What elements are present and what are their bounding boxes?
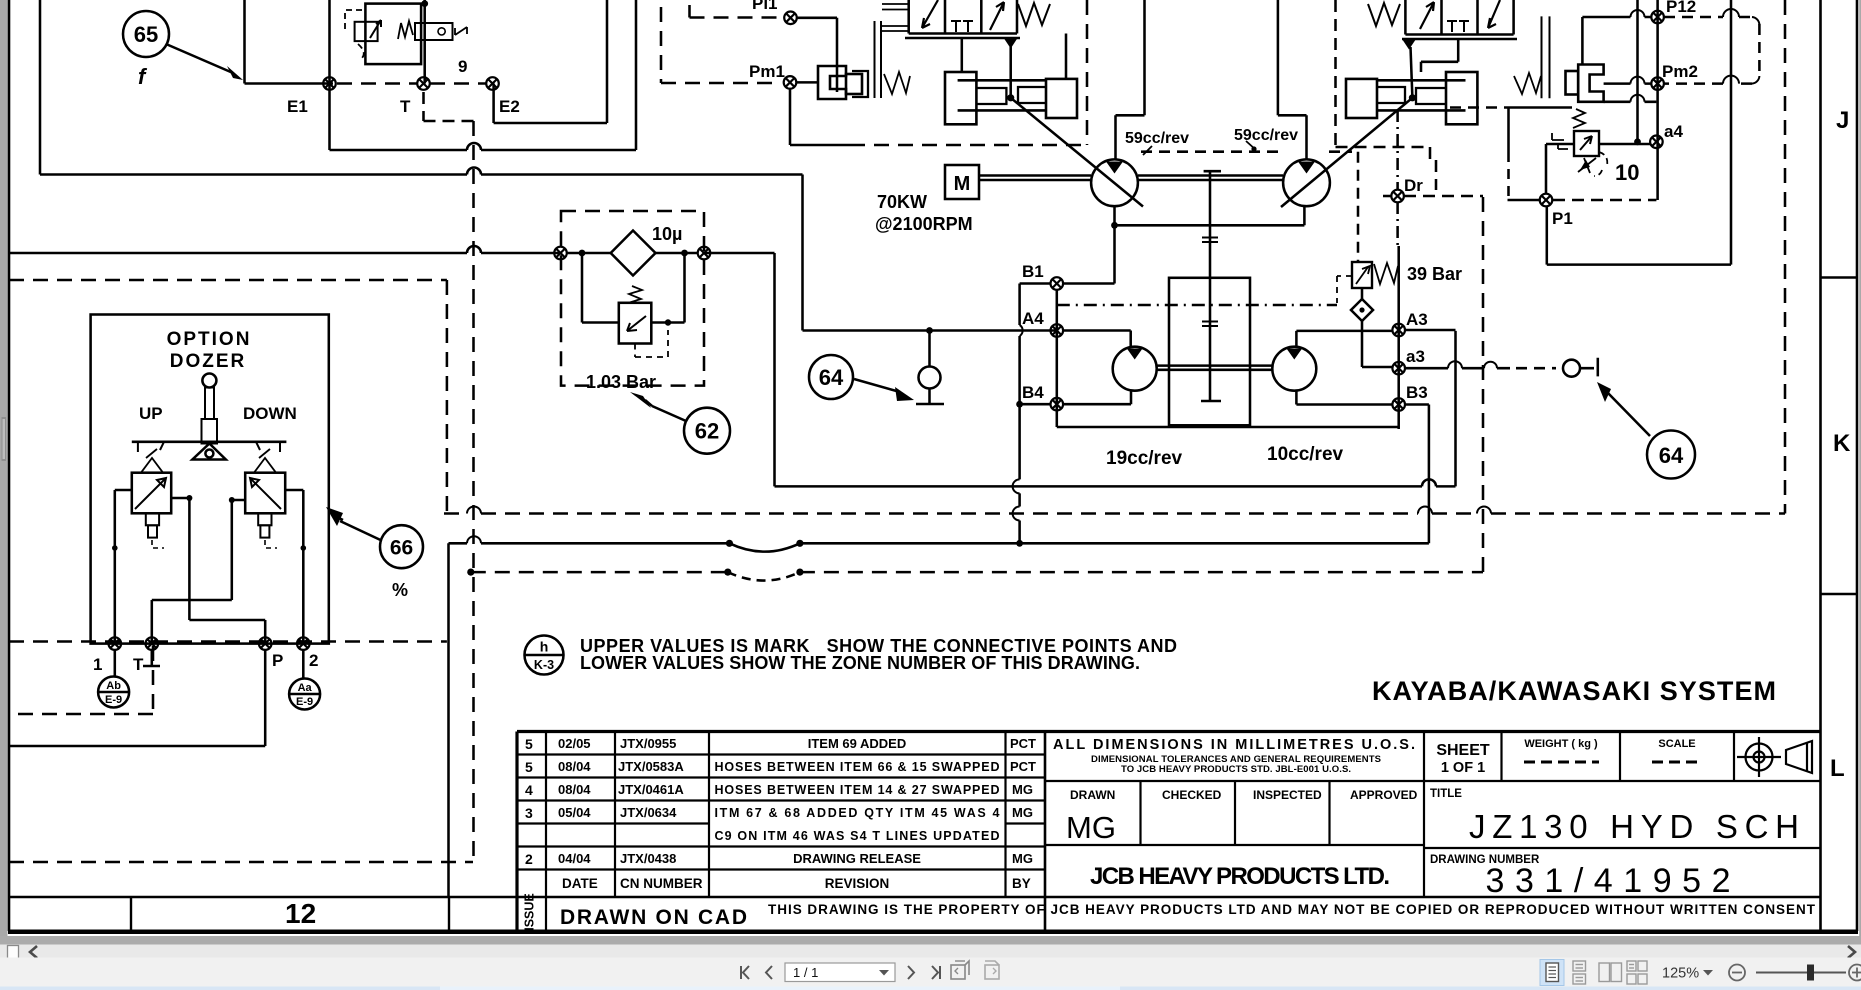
svg-text:ISSUE: ISSUE (523, 893, 537, 931)
Pm1 drain line (790, 89, 850, 145)
pilot arrow valve2 to servo (1402, 39, 1416, 50)
valve 1 port links left (882, 4, 909, 31)
valve 10 drain arrow (1578, 158, 1596, 173)
dozer wiring right port (285, 490, 303, 644)
svg-text:05/04: 05/04 (558, 805, 591, 820)
svg-text:10cc/rev: 10cc/rev (1267, 444, 1344, 465)
svg-text:Pm2: Pm2 (1662, 62, 1698, 81)
dozer dashed box right (446, 280, 449, 514)
svg-text:KAYABA/KAWASAKI SYSTEM: KAYABA/KAWASAKI SYSTEM (1372, 676, 1776, 706)
svg-text:E2: E2 (499, 97, 520, 116)
weight dashes (1524, 761, 1599, 764)
svg-text:B1: B1 (1022, 262, 1044, 281)
leader arrow 64 right (1607, 392, 1650, 436)
svg-text:CHECKED: CHECKED (1162, 788, 1222, 802)
svg-text:L: L (1830, 755, 1845, 782)
layout icon book view (1627, 961, 1647, 984)
39Bar pilot dashes (1337, 276, 1352, 303)
pilot vertical x1637.5 (1636, 0, 1639, 142)
dashed box corner Pi1 (690, 5, 780, 18)
svg-text:ITM 67 & 68 ADDED QTY ITM 45 W: ITM 67 & 68 ADDED QTY ITM 45 WAS 4 (715, 806, 1000, 820)
wire Pm1 to valve (797, 81, 819, 84)
filter outlet node (698, 247, 711, 260)
svg-text:9: 9 (458, 57, 467, 76)
svg-text:64: 64 (819, 365, 844, 390)
wire P port to left (9, 650, 265, 746)
svg-text:19cc/rev: 19cc/rev (1106, 448, 1183, 469)
shuttle diamond (1351, 299, 1373, 321)
svg-text:T: T (133, 655, 144, 674)
svg-text:TITLE: TITLE (1430, 788, 1462, 800)
scrollbar right arrow (1848, 946, 1855, 958)
dash-dot return line y305 (1057, 304, 1337, 307)
zone strip divider 2 (448, 897, 450, 931)
pressure reducing valve 10 (1574, 131, 1599, 156)
swash link pump2 (1281, 98, 1412, 207)
sheet right outer border (1856, 0, 1859, 931)
pump housing box (1169, 278, 1250, 426)
dozer dashed box bottom (9, 640, 447, 643)
dozer wiring left port (115, 490, 132, 644)
wire pump2 top (1278, 0, 1307, 160)
svg-text:62: 62 (695, 419, 719, 444)
svg-text:Pi1: Pi1 (752, 0, 778, 13)
svg-text:C9 ON ITM 46 WAS S4 T LINES UP: C9 ON ITM 46 WAS S4 T LINES UPDATED (715, 829, 1000, 843)
svg-text:JTX/0583A: JTX/0583A (618, 759, 684, 774)
svg-text:MG: MG (1012, 805, 1033, 820)
circle 64 right (1647, 431, 1695, 479)
splitter handle dots (2, 417, 7, 461)
valve 1 arrows (922, 0, 938, 28)
node port T (146, 637, 159, 650)
zone separator K/L (1821, 593, 1858, 596)
svg-text:10: 10 (1615, 160, 1639, 185)
Pm1 valve spring (884, 72, 910, 94)
svg-text:JTX/0438: JTX/0438 (620, 851, 676, 866)
dozer solid box (91, 315, 329, 644)
main control valve 2 body (1405, 0, 1513, 35)
dashed boundary above valve10 (1450, 106, 1509, 109)
svg-text:E-9: E-9 (296, 696, 313, 708)
pump group port rail (1057, 290, 1399, 427)
bypass right line (651, 253, 684, 323)
dozer dashed box top (9, 279, 447, 282)
joystick stem (205, 388, 214, 420)
valve 1 spring (1018, 3, 1050, 26)
valve 9 pilot dashes (345, 10, 365, 58)
node T (417, 77, 430, 90)
svg-text:1.03 Bar: 1.03 Bar (586, 372, 656, 392)
tank under T (143, 650, 160, 666)
svg-text:MG: MG (1012, 851, 1033, 866)
wire hop at x474 (467, 168, 481, 175)
39Bar spring (1374, 263, 1398, 284)
title block outer frame (517, 732, 1821, 932)
scrollbar thumb (8, 946, 19, 963)
main control valve 1 body (909, 0, 1017, 34)
wire B1 (1020, 284, 1051, 326)
filter element (611, 231, 656, 276)
svg-text:64: 64 (1659, 443, 1684, 468)
pump 1 (1091, 159, 1138, 206)
viewer left gray strip (0, 0, 8, 937)
wire: E1-T-E2 pilot line (245, 0, 334, 84)
svg-text:Aa: Aa (298, 682, 313, 694)
wire Pm2 (1604, 82, 1651, 85)
valve 10 spring (1573, 109, 1585, 128)
valve 9 solenoid (415, 23, 453, 40)
svg-text:P12: P12 (1666, 0, 1696, 16)
wire A3 (1296, 329, 1455, 332)
svg-text:ITEM 69 ADDED: ITEM 69 ADDED (808, 736, 906, 751)
node E2 box (494, 0, 607, 123)
wire: long horizontal to pump group (40, 173, 803, 176)
svg-text:1: 1 (93, 655, 102, 674)
note symbol circle h/K-3 (525, 636, 564, 675)
svg-text:P: P (272, 651, 283, 670)
wire valve1 to servo (961, 38, 964, 72)
projection symbol target (1737, 737, 1812, 777)
sheet bottom border (8, 930, 1858, 935)
joystick bar (132, 441, 287, 444)
svg-text:3: 3 (525, 805, 533, 821)
svg-text:Pm1: Pm1 (749, 62, 785, 81)
Pm2 push rod double bar (1542, 16, 1550, 98)
svg-text:70KW: 70KW (877, 192, 927, 212)
pilot arrow to servo piston (1004, 38, 1018, 49)
return vertical to zone strip (447, 543, 450, 897)
svg-text:1 / 1: 1 / 1 (793, 965, 818, 980)
svg-text:B4: B4 (1022, 383, 1044, 402)
svg-text:12: 12 (285, 898, 316, 929)
dozer wiring cross links (171, 498, 265, 644)
wire pump4 ports (1295, 331, 1298, 405)
svg-text:JTX/0955: JTX/0955 (620, 736, 676, 751)
gear pump 19cc (1113, 347, 1157, 391)
node E2 (486, 77, 499, 90)
valve 10 box left edge (1507, 108, 1510, 153)
svg-text:LOWER VALUES SHOW THE ZONE NUM: LOWER VALUES SHOW THE ZONE NUMBER OF THI… (580, 653, 1140, 673)
zoom slider (1756, 972, 1846, 974)
long dashed vertical x473.5 (472, 121, 475, 862)
svg-text:10µ: 10µ (652, 224, 682, 244)
layout icon single page (active) (1540, 960, 1564, 986)
svg-text:HOSES BETWEEN ITEM 66 & 15 SWA: HOSES BETWEEN ITEM 66 & 15 SWAPPED (715, 760, 1000, 774)
wire B1 to pump1 (1063, 282, 1115, 285)
scale dashes (1652, 761, 1702, 764)
circle 62 (684, 408, 730, 454)
revision table row lines (517, 753, 1045, 755)
dashed boundary x1483 (1482, 197, 1485, 573)
dozer pilot valve left (132, 473, 171, 514)
svg-text:MG: MG (1066, 810, 1116, 845)
svg-text:REVISION: REVISION (825, 876, 890, 891)
svg-text:WEIGHT ( kg ): WEIGHT ( kg ) (1524, 738, 1598, 750)
gear shaft (1201, 171, 1221, 401)
filter inlet node (554, 247, 567, 260)
node P12 (1651, 11, 1664, 24)
dashed valve2 group boundary (1336, 0, 1437, 190)
long dashed line y862 (9, 861, 473, 864)
node Pi1 (784, 11, 797, 24)
bypass relief valve (619, 303, 652, 344)
big pump housing box right (1547, 0, 1731, 265)
svg-text:DOWN: DOWN (243, 404, 297, 423)
svg-text:MG: MG (1012, 782, 1033, 797)
node port P (259, 637, 272, 650)
circle 65 (123, 11, 169, 57)
node Pm2 (1651, 77, 1664, 90)
layout icon facing (1599, 963, 1622, 982)
svg-text:CN NUMBER: CN NUMBER (620, 876, 703, 891)
leader arrow 64 left (854, 379, 900, 392)
node a3 (1392, 362, 1405, 375)
wire: valve 9 to node T (423, 0, 426, 84)
bottom toolbar (0, 958, 1861, 988)
revision table column lines (545, 732, 547, 932)
node Dr (1391, 190, 1404, 203)
dashed drain sag (728, 572, 800, 580)
wire valve10 top link (1604, 101, 1657, 104)
right valve plunger (258, 513, 271, 525)
node Pm1 (784, 76, 797, 89)
wire: horizontal y486.4 (775, 485, 1456, 488)
svg-text:DRAWN: DRAWN (1070, 788, 1115, 802)
dashed line to Pm1 (661, 7, 779, 83)
svg-text:E1: E1 (287, 97, 308, 116)
zone separator J/K (1821, 276, 1858, 279)
check valve to accumulator port (1563, 360, 1580, 377)
wire a3 with hops (1405, 367, 1510, 370)
bottom zone strip line (9, 896, 1821, 898)
svg-text:DRAWN ON CAD: DRAWN ON CAD (560, 906, 747, 929)
svg-text:JZ130 HYD SCH: JZ130 HYD SCH (1469, 808, 1799, 845)
return line sag (729, 543, 800, 551)
svg-text:DRAWING RELEASE: DRAWING RELEASE (793, 851, 921, 866)
svg-text:Ab: Ab (106, 680, 121, 692)
svg-text:65: 65 (134, 22, 158, 47)
circle 66 (380, 525, 423, 568)
next-view icon (985, 961, 999, 979)
node a4 (1650, 136, 1663, 149)
wire: vertical x774.5 (773, 253, 776, 486)
svg-text:@2100RPM: @2100RPM (875, 214, 973, 234)
leader arrow from 65 (166, 44, 233, 73)
filter dashed box (561, 211, 704, 386)
zone strip divider 1 (130, 897, 132, 931)
bottom blue strip (0, 987, 1861, 990)
node P1 (1540, 194, 1553, 207)
lower pump shaft (1157, 366, 1272, 370)
wire pump1 top (1116, 0, 1145, 160)
bypass left line (582, 253, 619, 323)
svg-text:M: M (954, 173, 971, 195)
valve 9 spring (398, 21, 413, 39)
wire diamond to a3 (1362, 366, 1392, 369)
svg-text:JTX/0634: JTX/0634 (620, 805, 677, 820)
viewer bottom gray band (0, 936, 1861, 945)
svg-text:331/41952: 331/41952 (1486, 862, 1731, 900)
svg-text:5: 5 (525, 759, 533, 775)
svg-text:a4: a4 (1664, 122, 1683, 141)
svg-text:PCT: PCT (1010, 759, 1036, 774)
drain dashed continuation (850, 144, 1087, 147)
svg-text:K-3: K-3 (534, 658, 554, 672)
left valve plunger (146, 513, 159, 525)
node port 1 (109, 637, 122, 650)
wire pump outlet cross line (1115, 206, 1305, 225)
wire: filter outlet to corner (704, 252, 775, 255)
svg-text:%: % (392, 580, 408, 600)
pilot dashed from T down (424, 92, 474, 121)
svg-text:59cc/rev: 59cc/rev (1125, 130, 1189, 147)
relief valve 39Bar (1352, 262, 1372, 288)
dashed P12 link to boundary (1664, 17, 1759, 84)
node B1 (1051, 277, 1064, 290)
plunger pilot dashes (152, 540, 277, 548)
wire pilot column x1657.6 (1656, 0, 1659, 200)
node E1 box (330, 0, 637, 150)
Dr vertical drain (1396, 110, 1399, 190)
solenoid valve 9 box (365, 4, 421, 65)
wire: through filter (566, 252, 698, 255)
svg-text:39 Bar: 39 Bar (1407, 264, 1462, 284)
dashed drain y572.1 (471, 571, 1483, 574)
valve 10 dashed detail (1594, 152, 1607, 176)
bypass junction dots (579, 250, 586, 257)
gear pump 10cc (1272, 347, 1316, 391)
nav first-page button (741, 966, 749, 979)
wire B4 (1020, 391, 1131, 405)
valve 2 spring left (1368, 3, 1400, 26)
svg-text:02/05: 02/05 (558, 736, 591, 751)
svg-text:JCB HEAVY PRODUCTS LTD.: JCB HEAVY PRODUCTS LTD. (1090, 863, 1390, 890)
svg-text:2: 2 (525, 851, 533, 867)
svg-text:J: J (1836, 107, 1849, 134)
Pm2 reducing valve body (1566, 71, 1579, 95)
return line y543.3 (449, 542, 1429, 545)
circle 64 left (809, 355, 853, 399)
svg-text:JTX/0461A: JTX/0461A (618, 782, 684, 797)
node B4 (1051, 398, 1064, 411)
svg-text:Dr: Dr (1404, 176, 1423, 195)
svg-text:04/04: 04/04 (558, 851, 591, 866)
regulator push rod double bar (875, 21, 882, 98)
wire: top-left supply vertical (39, 0, 42, 175)
svg-text:HOSES BETWEEN ITEM 14 & 27 SWA: HOSES BETWEEN ITEM 14 & 27 SWAPPED (715, 783, 1000, 797)
svg-text:a3: a3 (1406, 347, 1425, 366)
svg-text:BY: BY (1012, 876, 1031, 891)
viewer right gray strip (1859, 0, 1861, 937)
swash link pump1 (1011, 98, 1143, 207)
motor M box (945, 165, 979, 199)
node port 2 (297, 637, 310, 650)
svg-text:125%: 125% (1662, 966, 1699, 982)
Pm1 reducing valve body (818, 66, 846, 99)
leader arrow from 62 (652, 406, 686, 421)
servo piston 1 (945, 72, 976, 124)
svg-text:OPTION: OPTION (167, 329, 252, 350)
leader arrow from 66 (340, 521, 381, 540)
dozer pilot valve right (245, 473, 285, 514)
valve 9 reducing element (355, 22, 378, 41)
wire valve10 to a4 (1599, 143, 1650, 146)
servo piston 2 (1346, 79, 1377, 118)
wire hop y150 at x474 (467, 143, 481, 150)
wire valve2 mid port (1421, 39, 1458, 72)
dozer dashed notch (9, 646, 153, 714)
pump 2 (1283, 159, 1330, 206)
valve 2 arrows (1420, 2, 1434, 29)
zoom out button (1729, 965, 1745, 981)
svg-text:4: 4 (525, 782, 533, 798)
wire: A4 feed line (803, 329, 1057, 332)
svg-text:08/04: 08/04 (558, 782, 591, 797)
svg-text:PCT: PCT (1010, 736, 1036, 751)
svg-text:66: 66 (390, 537, 413, 560)
svg-text:2: 2 (309, 651, 318, 670)
connector circle Aa/E-9 (302, 650, 305, 679)
svg-text:59cc/rev: 59cc/rev (1234, 127, 1298, 144)
svg-text:08/04: 08/04 (558, 759, 591, 774)
svg-text:T: T (400, 97, 411, 116)
joystick pivot (192, 444, 225, 460)
wire pump1 outlet down (1113, 206, 1116, 283)
wire Pi1 to regulator (797, 18, 837, 92)
svg-text:1 OF 1: 1 OF 1 (1441, 760, 1485, 776)
wire hop at x474 on y253 (467, 246, 481, 253)
wire: vertical down at x802.5 (801, 175, 804, 331)
gear coupling ticks upper (1202, 238, 1218, 243)
layout icon continuous (1573, 961, 1586, 984)
dashed box edge x1087 (1086, 0, 1089, 145)
dashed pump group right boundary x1360 (1329, 152, 1358, 262)
sheet left border (8, 0, 11, 931)
shaft between pumps (1138, 176, 1283, 181)
nav next-page button (908, 966, 914, 979)
check valve 64 left (928, 331, 931, 367)
gear coupling ticks lower (1202, 322, 1218, 327)
node B3 (1392, 398, 1405, 411)
bypass pilot dashes (635, 330, 668, 357)
svg-text:P1: P1 (1552, 209, 1573, 228)
svg-text:DOZER: DOZER (170, 351, 247, 372)
wire P1 row (1508, 199, 1540, 202)
svg-text:DATE: DATE (562, 876, 598, 891)
wire: main suction line y253 (9, 252, 561, 255)
drive shaft double line (979, 176, 1091, 181)
horizontal scrollbar track (0, 945, 1861, 958)
joystick knob (202, 374, 216, 388)
wire A4 to pump3 (1063, 331, 1131, 347)
svg-text:K: K (1833, 430, 1851, 457)
page number box (785, 963, 895, 982)
dashed link between pump tops (1141, 150, 1283, 153)
wire B3 (1296, 405, 1429, 544)
dashed boundary bottom y513.5 (444, 0, 1785, 514)
svg-text:E-9: E-9 (105, 694, 122, 706)
svg-text:h: h (540, 639, 549, 655)
svg-text:INSPECTED: INSPECTED (1253, 788, 1322, 802)
wire P12 (1582, 17, 1651, 66)
prev-view icon (951, 961, 969, 979)
Dr dashed drain to boundary (1404, 195, 1483, 198)
junction dot above valve 9 (421, 0, 428, 7)
svg-text:B3: B3 (1406, 383, 1428, 402)
node A3 (1392, 324, 1405, 337)
junction on A4 line (926, 327, 933, 334)
zoom in button (1849, 965, 1861, 981)
